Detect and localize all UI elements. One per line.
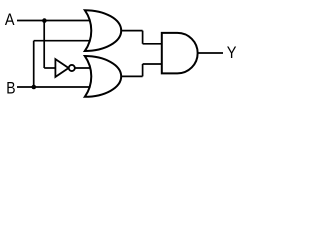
- wire AND lower input: [143, 63, 163, 65]
- or-gate U1 (A OR B): [85, 10, 121, 51]
- wire OR2 to AND vertical: [142, 64, 144, 76]
- inverter U2 bubble: [69, 65, 75, 71]
- junction A: [42, 18, 47, 23]
- junction B: [32, 85, 37, 90]
- wire OR1 to AND vertical: [142, 31, 144, 44]
- or-gate U3 (NOT-A OR B): [85, 56, 121, 97]
- wire B to OR1 lower input: [34, 40, 92, 42]
- svg-text:Y: Y: [227, 44, 237, 62]
- wire B vertical rise: [33, 41, 35, 87]
- wire NOT output: [75, 67, 92, 69]
- inverter U2 triangle: [55, 59, 68, 77]
- wire Y output: [198, 52, 223, 54]
- wire OR2 output: [121, 75, 143, 77]
- wire A vertical drop: [43, 21, 45, 69]
- svg-text:A: A: [5, 11, 15, 29]
- svg-text:B: B: [6, 79, 15, 98]
- wire A input: [17, 20, 92, 22]
- wire NOT input: [44, 67, 55, 69]
- wire AND upper input: [143, 43, 163, 45]
- wire B input: [17, 86, 92, 88]
- and-gate U4: [162, 33, 198, 74]
- wire OR1 output: [121, 30, 143, 32]
